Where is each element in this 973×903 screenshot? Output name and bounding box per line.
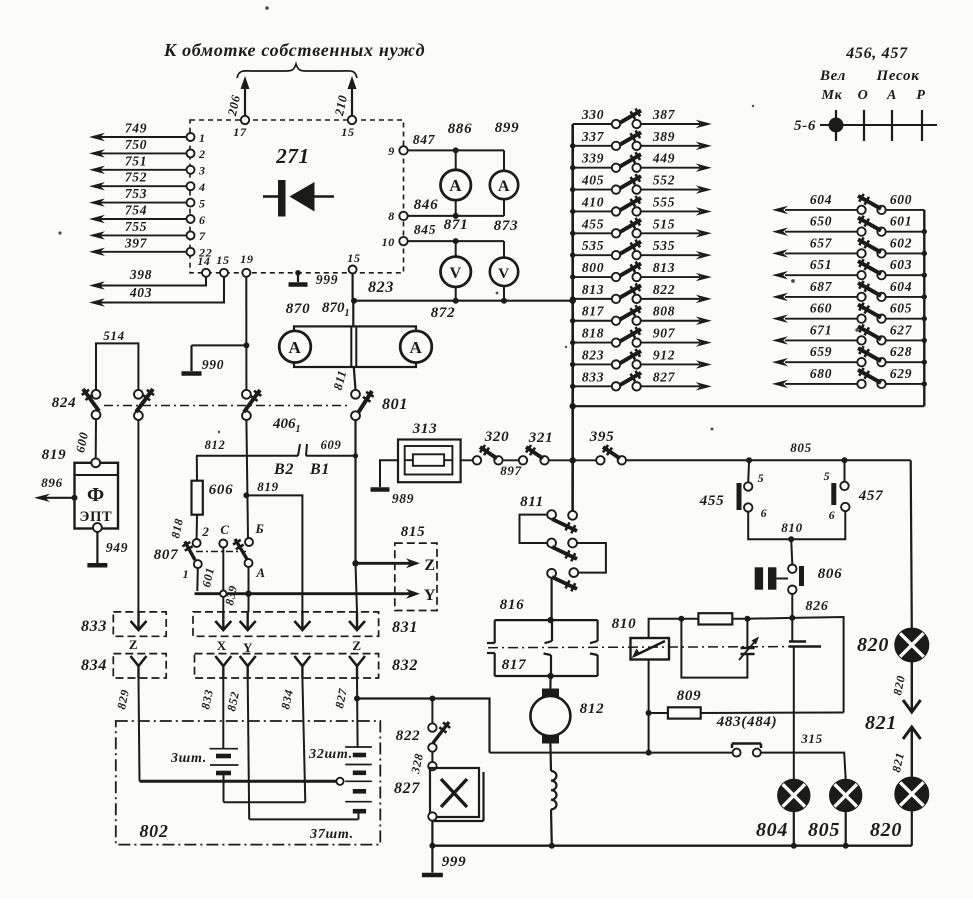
svg-text:606: 606 bbox=[209, 482, 234, 498]
wire 206 arrow up from terminal 17 bbox=[244, 84, 246, 118]
svg-text:5: 5 bbox=[824, 469, 831, 483]
wire 833 to battery bbox=[222, 678, 224, 749]
wire 753 to terminal 5 bbox=[100, 202, 186, 204]
brace over terminals 17 and 15 bbox=[237, 64, 357, 78]
svg-text:A: A bbox=[449, 176, 462, 195]
svg-text:827: 827 bbox=[653, 369, 676, 384]
junction of 872 bus on central bus bbox=[570, 298, 576, 304]
contact А bbox=[245, 559, 253, 567]
mechanical link 807-BA bbox=[196, 551, 246, 553]
svg-text:754: 754 bbox=[125, 203, 147, 218]
svg-text:755: 755 bbox=[125, 219, 147, 234]
battery box 802 dashed bbox=[116, 721, 381, 845]
svg-text:671: 671 bbox=[810, 322, 832, 337]
wire 826 down to lamp 804 bbox=[793, 647, 795, 780]
wire 398 bbox=[100, 277, 206, 286]
wire 805 corner down to lamp 820 bbox=[911, 460, 912, 628]
svg-text:989: 989 bbox=[392, 491, 414, 506]
switch row 339/449 bbox=[573, 167, 612, 169]
svg-text:6: 6 bbox=[199, 213, 206, 227]
svg-text:3: 3 bbox=[198, 164, 206, 178]
arrow into 833 bbox=[137, 612, 139, 628]
terminal 15 of wire 823 bbox=[349, 266, 357, 274]
wire from unlabeled switch down to box 833 bbox=[137, 420, 139, 612]
wire 852 bbox=[248, 678, 250, 819]
svg-text:2: 2 bbox=[201, 524, 209, 539]
svg-text:749: 749 bbox=[125, 121, 147, 136]
lamp 805 bbox=[830, 780, 861, 811]
wire 801 down to Z junction bbox=[354, 420, 356, 456]
svg-text:5: 5 bbox=[758, 471, 765, 485]
svg-text:A: A bbox=[410, 338, 423, 357]
svg-text:627: 627 bbox=[890, 322, 913, 337]
svg-text:5: 5 bbox=[199, 196, 206, 210]
svg-text:813: 813 bbox=[653, 260, 675, 275]
resistor box 313 bbox=[398, 440, 461, 483]
svg-text:650: 650 bbox=[810, 214, 832, 229]
svg-text:15: 15 bbox=[347, 251, 360, 265]
svg-text:805: 805 bbox=[808, 819, 840, 841]
svg-text:6: 6 bbox=[829, 508, 836, 522]
terminal 10 of 271 bbox=[399, 237, 407, 245]
connector B2-B1 break bbox=[298, 444, 300, 456]
switch 321 bbox=[519, 456, 527, 464]
wire 834 bbox=[302, 678, 305, 802]
svg-text:X: X bbox=[217, 638, 227, 653]
svg-text:515: 515 bbox=[653, 216, 675, 231]
svg-text:604: 604 bbox=[890, 279, 912, 294]
svg-text:680: 680 bbox=[810, 366, 832, 381]
svg-text:552: 552 bbox=[653, 173, 675, 188]
switch row 823/912 bbox=[573, 363, 612, 365]
svg-text:823: 823 bbox=[368, 279, 394, 296]
svg-text:817: 817 bbox=[502, 657, 527, 673]
svg-text:403: 403 bbox=[129, 285, 152, 300]
svg-text:820: 820 bbox=[857, 634, 889, 656]
wire to contact 826 and corner bbox=[747, 617, 792, 620]
switch row 817/808 bbox=[573, 320, 612, 322]
svg-text:457: 457 bbox=[858, 488, 884, 504]
switch row 800/813 bbox=[573, 276, 612, 278]
svg-text:629: 629 bbox=[890, 366, 912, 381]
svg-text:271: 271 bbox=[275, 144, 310, 168]
terminal 15 top bbox=[348, 116, 356, 124]
bracket wire 514 bbox=[96, 343, 138, 389]
resistor of RC unit bbox=[681, 618, 698, 620]
svg-text:339: 339 bbox=[581, 151, 604, 166]
wire 752 to terminal 4 bbox=[100, 185, 186, 187]
svg-text:Песок: Песок bbox=[875, 68, 919, 84]
svg-text:455: 455 bbox=[699, 493, 725, 509]
svg-text:659: 659 bbox=[810, 344, 832, 359]
resistor 606 bbox=[196, 456, 198, 481]
device 827 box with X bbox=[428, 762, 436, 770]
box 832 dashed bbox=[195, 654, 379, 678]
svg-text:Ф: Ф bbox=[87, 484, 105, 506]
svg-text:801: 801 bbox=[382, 396, 408, 413]
wire 810 between 455 and 457 bbox=[748, 511, 845, 539]
svg-text:32шт.: 32шт. bbox=[308, 747, 353, 762]
box 833 dashed bbox=[113, 612, 166, 636]
box 815 dashed bbox=[395, 543, 437, 610]
svg-text:387: 387 bbox=[652, 107, 676, 122]
bottom return bus bbox=[432, 845, 911, 847]
wire 811 from 870 box bbox=[354, 367, 356, 390]
svg-text:603: 603 bbox=[890, 257, 912, 272]
lamp 820 lower bbox=[895, 778, 928, 811]
svg-text:752: 752 bbox=[125, 170, 147, 185]
pushbutton 315 bbox=[732, 742, 761, 745]
plug connector of 806 bbox=[755, 567, 763, 589]
svg-text:651: 651 bbox=[810, 257, 832, 272]
svg-text:А: А bbox=[255, 565, 265, 580]
svg-text:896: 896 bbox=[41, 475, 63, 490]
svg-text:845: 845 bbox=[414, 222, 436, 237]
wire 829 bbox=[139, 678, 140, 781]
wire 483(484) bbox=[490, 752, 733, 754]
wire 872 bus bbox=[354, 300, 573, 302]
svg-text:315: 315 bbox=[800, 731, 823, 746]
svg-text:846: 846 bbox=[414, 197, 439, 213]
svg-text:800: 800 bbox=[582, 260, 604, 275]
wire 406 down to contact Б bbox=[246, 420, 248, 538]
wire to lamp 805 bbox=[761, 753, 846, 780]
svg-text:313: 313 bbox=[412, 421, 438, 437]
svg-text:17: 17 bbox=[233, 125, 247, 139]
svg-text:609: 609 bbox=[321, 438, 342, 452]
svg-text:6: 6 bbox=[761, 506, 768, 520]
central bus 600V bbox=[571, 124, 574, 406]
wire relay bottom bbox=[648, 660, 650, 753]
junction 819 and wire to box 831 bbox=[243, 492, 249, 498]
switch 822 bbox=[429, 696, 435, 702]
svg-text:602: 602 bbox=[890, 235, 912, 250]
wire 897 bbox=[503, 459, 519, 461]
switch row 657/602 bbox=[785, 252, 857, 254]
svg-text:A: A bbox=[498, 178, 510, 195]
svg-text:4: 4 bbox=[198, 180, 206, 194]
svg-text:823: 823 bbox=[582, 347, 604, 362]
switch row 680/629 bbox=[785, 383, 857, 385]
svg-text:Y: Y bbox=[424, 587, 436, 604]
svg-text:405: 405 bbox=[581, 173, 604, 188]
wire 827 horizontal to switch 822 bbox=[357, 699, 490, 753]
svg-text:С: С bbox=[220, 522, 229, 537]
contact 806 bbox=[791, 539, 792, 564]
svg-text:999: 999 bbox=[442, 854, 467, 870]
terminal 15 bottom of 271 bbox=[220, 269, 228, 277]
svg-text:2: 2 bbox=[198, 147, 206, 161]
terminal 8 of 271 bbox=[399, 212, 407, 220]
right bank bus bbox=[923, 210, 925, 406]
svg-text:В1: В1 bbox=[309, 461, 330, 478]
svg-text:8: 8 bbox=[388, 209, 395, 223]
wire 600 bbox=[95, 419, 97, 458]
svg-text:5-6: 5-6 bbox=[794, 118, 816, 134]
svg-text:Р: Р bbox=[916, 88, 925, 103]
svg-text:833: 833 bbox=[81, 618, 107, 635]
svg-text:455: 455 bbox=[581, 216, 604, 231]
svg-text:Z: Z bbox=[424, 557, 435, 574]
lamp 820 upper bbox=[895, 629, 928, 662]
svg-text:V: V bbox=[450, 265, 462, 282]
svg-text:389: 389 bbox=[652, 129, 675, 144]
wire 812 bbox=[196, 455, 298, 457]
svg-text:600: 600 bbox=[890, 192, 912, 207]
wire 845/871/873 voltmeter bus bbox=[408, 240, 504, 242]
switch row 671/627 bbox=[785, 339, 857, 341]
switch 406_1 bbox=[242, 390, 251, 399]
svg-text:3шт.: 3шт. bbox=[170, 751, 207, 766]
wire 313 to switch 320 bbox=[461, 459, 473, 461]
svg-text:410: 410 bbox=[581, 194, 604, 209]
svg-text:821: 821 bbox=[865, 712, 897, 734]
svg-text:899: 899 bbox=[495, 120, 520, 136]
svg-text:753: 753 bbox=[125, 186, 147, 201]
diode symbol inside 271 bbox=[263, 195, 278, 198]
svg-text:А: А bbox=[886, 88, 897, 103]
svg-text:820: 820 bbox=[870, 819, 902, 841]
ground 949 under ЭПТ bbox=[96, 532, 98, 563]
svg-text:398: 398 bbox=[129, 267, 152, 282]
battery mid wire with terminal bbox=[140, 780, 337, 783]
svg-text:871: 871 bbox=[444, 217, 469, 233]
switch row 659/628 bbox=[785, 361, 857, 363]
svg-text:809: 809 bbox=[677, 688, 702, 704]
switch 807 blade bbox=[185, 541, 195, 560]
svg-text:320: 320 bbox=[484, 429, 510, 445]
svg-text:818: 818 bbox=[582, 326, 604, 341]
svg-text:873: 873 bbox=[494, 218, 519, 234]
switch row 410/555 bbox=[573, 210, 612, 212]
svg-text:7: 7 bbox=[199, 229, 206, 243]
wire 749 to terminal 1 bbox=[100, 136, 186, 138]
switch row 833/827 bbox=[573, 385, 612, 387]
wire Y line bbox=[195, 592, 415, 595]
svg-text:449: 449 bbox=[652, 151, 675, 166]
svg-text:886: 886 bbox=[448, 121, 473, 137]
svg-text:Z: Z bbox=[129, 637, 138, 652]
forks out of 832 bbox=[215, 656, 231, 666]
svg-text:847: 847 bbox=[413, 132, 436, 147]
svg-text:805: 805 bbox=[790, 440, 812, 455]
svg-text:397: 397 bbox=[124, 235, 148, 250]
svg-text:815: 815 bbox=[401, 524, 426, 540]
svg-text:751: 751 bbox=[125, 153, 147, 168]
svg-text:Мк: Мк bbox=[821, 88, 843, 103]
wire Z line bbox=[352, 560, 358, 566]
contact C bbox=[219, 540, 227, 548]
svg-text:819: 819 bbox=[42, 447, 67, 463]
wire 755 to terminal 7 bbox=[100, 234, 186, 236]
svg-text:804: 804 bbox=[756, 819, 788, 841]
switch row 651/603 bbox=[785, 274, 857, 276]
svg-text:912: 912 bbox=[653, 347, 675, 362]
capacitor arrow bbox=[739, 639, 757, 660]
svg-text:330: 330 bbox=[581, 107, 604, 122]
svg-text:14: 14 bbox=[198, 256, 211, 268]
svg-text:Б: Б bbox=[255, 521, 265, 536]
wire 823 vertical bbox=[352, 274, 354, 301]
svg-text:Вел: Вел bbox=[819, 68, 846, 84]
svg-text:872: 872 bbox=[431, 305, 456, 321]
svg-text:1: 1 bbox=[199, 131, 206, 145]
svg-text:483(484): 483(484) bbox=[716, 714, 778, 730]
svg-text:816: 816 bbox=[500, 597, 525, 613]
svg-text:802: 802 bbox=[139, 821, 168, 841]
svg-text:834: 834 bbox=[81, 657, 107, 674]
svg-text:535: 535 bbox=[582, 238, 604, 253]
relay Ф ЭПТ 819 bbox=[75, 463, 119, 529]
svg-text:817: 817 bbox=[582, 304, 605, 319]
svg-text:810: 810 bbox=[612, 616, 637, 632]
switch 395 bbox=[596, 456, 604, 464]
wire 896 arrow bbox=[72, 495, 78, 501]
paper speckles bbox=[58, 231, 61, 234]
wire relay top to resistor bbox=[649, 619, 682, 638]
switch of wire 833 (unlabeled) bbox=[134, 390, 143, 399]
wire 19 to switch 406_1 bbox=[245, 277, 247, 390]
svg-text:999: 999 bbox=[316, 272, 338, 287]
ground 990 bbox=[192, 344, 247, 346]
svg-text:949: 949 bbox=[106, 540, 128, 555]
svg-text:37шт.: 37шт. bbox=[309, 827, 354, 842]
svg-text:897: 897 bbox=[500, 463, 522, 478]
svg-text:601: 601 bbox=[890, 214, 912, 229]
svg-text:808: 808 bbox=[653, 304, 675, 319]
inductor below motor bbox=[549, 744, 552, 772]
svg-text:822: 822 bbox=[396, 728, 421, 744]
svg-text:826: 826 bbox=[805, 599, 828, 614]
wire 754 to terminal 6 bbox=[100, 218, 186, 220]
ground 999 under 271 bbox=[295, 270, 301, 276]
wire 210 arrow up from terminal 15 bbox=[351, 84, 353, 118]
wire 403 bbox=[100, 277, 224, 303]
svg-text:750: 750 bbox=[125, 137, 147, 152]
wire 847/886/899 top meter bus bbox=[408, 149, 504, 151]
svg-text:555: 555 bbox=[653, 194, 675, 209]
svg-text:907: 907 bbox=[653, 326, 676, 341]
wire 751 to terminal 3 bbox=[100, 169, 186, 171]
wire 820 with down arrow bbox=[911, 662, 913, 711]
svg-text:9: 9 bbox=[388, 144, 395, 158]
svg-text:1: 1 bbox=[183, 567, 190, 581]
voltmeter V2 873 bbox=[503, 241, 505, 258]
switch row 337/389 bbox=[573, 145, 612, 147]
switch row 687/604 bbox=[785, 296, 857, 298]
switch row 330/387 bbox=[573, 123, 612, 125]
svg-text:A: A bbox=[289, 338, 302, 357]
rectifier unit 271 dashed box bbox=[190, 120, 404, 273]
switch row 455/515 bbox=[573, 232, 612, 234]
wire to central bus bbox=[549, 459, 597, 461]
svg-text:831: 831 bbox=[392, 619, 418, 636]
contact 826 bbox=[791, 594, 793, 642]
ground 989 of 313 bbox=[380, 460, 398, 487]
box 831 dashed bbox=[193, 612, 379, 636]
svg-text:833: 833 bbox=[582, 369, 604, 384]
switch row 650/601 bbox=[785, 231, 857, 233]
svg-text:Z: Z bbox=[352, 638, 361, 653]
svg-text:990: 990 bbox=[202, 357, 224, 372]
switch row 660/605 bbox=[785, 318, 857, 320]
svg-text:К обмотке собственных нуж: К обмотке собственных нужд bbox=[163, 40, 425, 60]
terminal 19 bottom of 271 bbox=[242, 269, 250, 277]
wire 827 from box 832 bbox=[356, 678, 359, 748]
lamp 804 bbox=[778, 780, 809, 811]
switch row 604/600 bbox=[785, 209, 857, 211]
svg-text:812: 812 bbox=[580, 701, 605, 717]
switch row 818/907 bbox=[573, 342, 612, 344]
switch 320 bbox=[473, 456, 481, 464]
ammeter 870_1 right bbox=[400, 331, 432, 363]
box 834 dashed bbox=[113, 654, 166, 678]
contact 457 bbox=[844, 460, 846, 481]
svg-text:687: 687 bbox=[810, 279, 833, 294]
svg-text:807: 807 bbox=[154, 547, 179, 563]
svg-text:628: 628 bbox=[890, 344, 912, 359]
svg-text:15: 15 bbox=[341, 125, 354, 139]
armature dash-dot line bbox=[488, 647, 820, 648]
mechanical link dash-dot 824/406/801 bbox=[104, 405, 348, 407]
svg-text:806: 806 bbox=[818, 566, 843, 582]
bottom link wire to right bank bus bbox=[570, 403, 576, 409]
ground 999 bottom bbox=[431, 821, 433, 846]
switch 824 bbox=[92, 390, 101, 399]
svg-text:812: 812 bbox=[205, 438, 226, 452]
switch 807 contact 1 bbox=[194, 560, 202, 568]
svg-text:456, 457: 456, 457 bbox=[845, 45, 908, 62]
arrows into 831 bbox=[222, 612, 224, 628]
svg-text:V: V bbox=[498, 266, 510, 282]
wire 846 bbox=[408, 215, 504, 217]
central bus to selector line bbox=[571, 406, 574, 460]
switch 801 bbox=[351, 390, 360, 399]
svg-text:832: 832 bbox=[392, 657, 418, 674]
svg-text:605: 605 bbox=[890, 301, 912, 316]
recording ammeter box 870 bbox=[294, 326, 416, 367]
svg-text:19: 19 bbox=[240, 252, 253, 266]
svg-text:604: 604 bbox=[810, 192, 832, 207]
terminal 17 bbox=[241, 116, 249, 124]
voltmeter V1 871 bbox=[455, 241, 457, 257]
svg-text:321: 321 bbox=[528, 430, 554, 446]
svg-text:О: О bbox=[858, 88, 869, 103]
motor 812 bbox=[549, 676, 551, 689]
svg-text:395: 395 bbox=[589, 429, 615, 445]
svg-text:10: 10 bbox=[382, 235, 395, 249]
svg-text:813: 813 bbox=[582, 282, 604, 297]
ammeter A2 899 bbox=[503, 150, 505, 171]
terminal 9 of 271 bbox=[399, 146, 407, 154]
switch row 535/535 bbox=[573, 254, 612, 256]
wire 397 to terminal 22 bbox=[100, 251, 186, 253]
switch row 405/552 bbox=[573, 189, 612, 191]
svg-text:660: 660 bbox=[810, 301, 832, 316]
svg-text:15: 15 bbox=[216, 253, 229, 267]
svg-text:827: 827 bbox=[394, 780, 420, 797]
blade Б-А bbox=[235, 539, 248, 560]
fork out of 834 bbox=[131, 656, 147, 666]
ammeter A1 886 bbox=[455, 150, 457, 170]
svg-text:811: 811 bbox=[520, 494, 544, 510]
svg-text:810: 810 bbox=[781, 520, 803, 535]
svg-text:824: 824 bbox=[52, 395, 77, 411]
svg-text:337: 337 bbox=[581, 129, 605, 144]
svg-text:В2: В2 bbox=[273, 461, 294, 478]
svg-text:514: 514 bbox=[103, 328, 125, 343]
svg-text:535: 535 bbox=[653, 238, 675, 253]
